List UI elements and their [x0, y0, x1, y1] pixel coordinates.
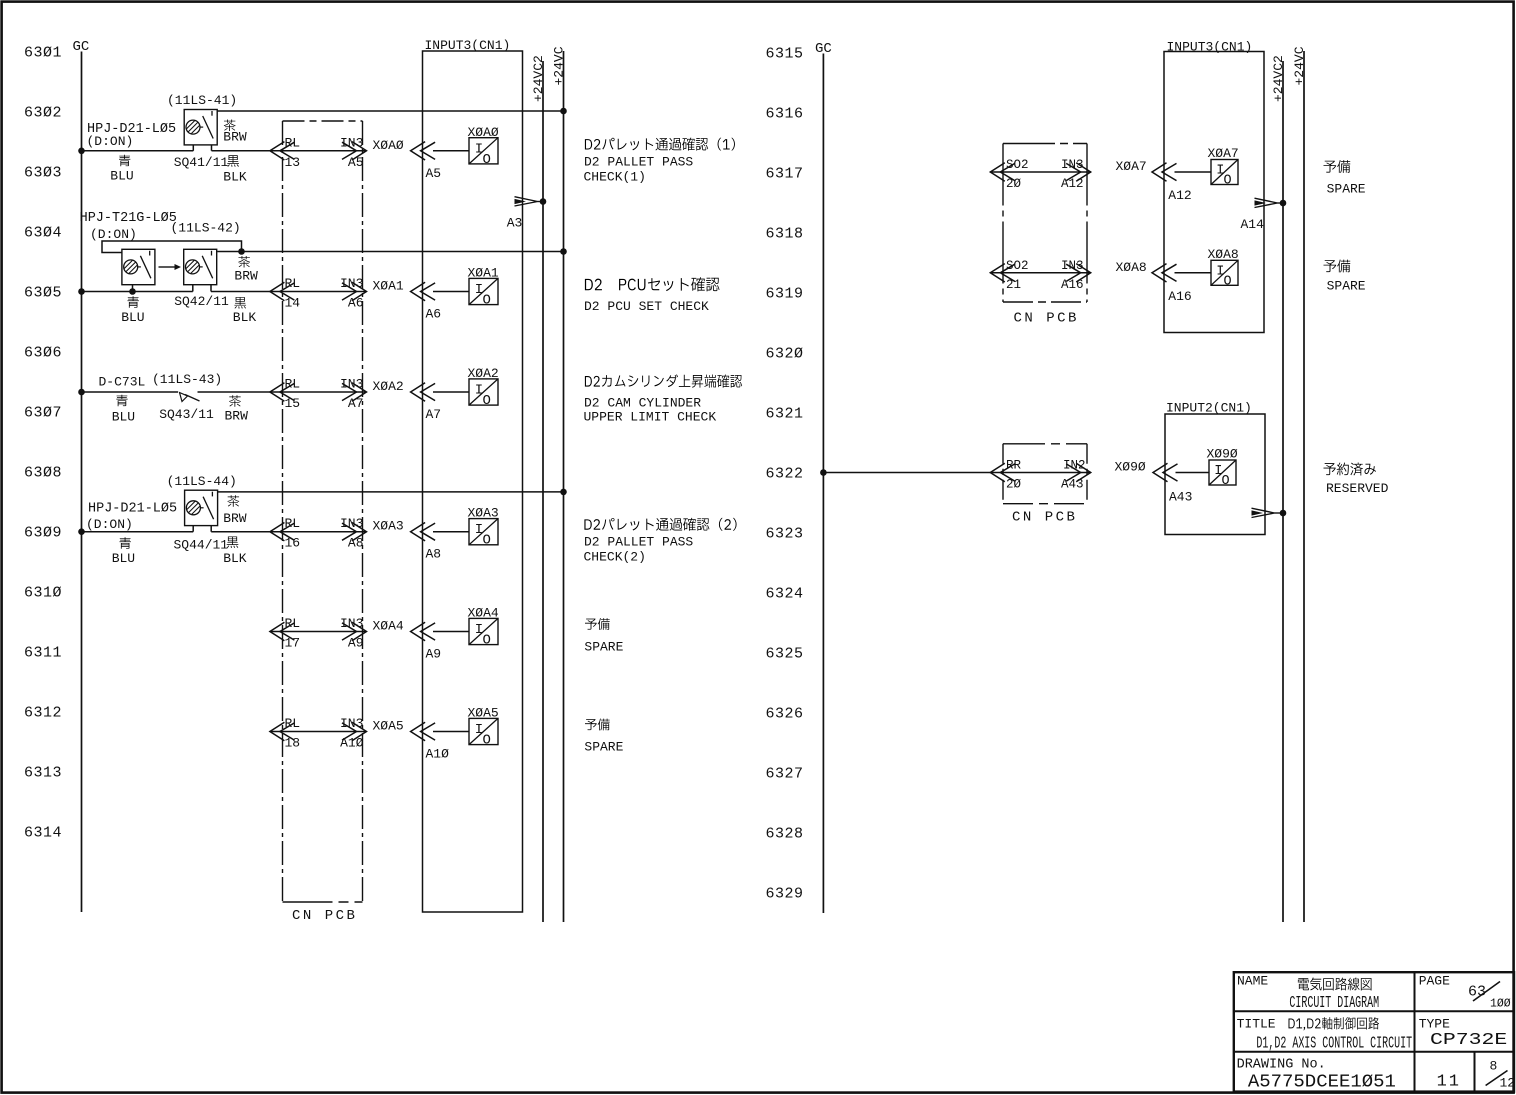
svg-text:BLK: BLK — [233, 310, 257, 325]
svg-text:13: 13 — [285, 155, 301, 170]
svg-text:2Ø: 2Ø — [1006, 478, 1022, 492]
svg-text:63Ø1: 63Ø1 — [24, 45, 62, 62]
connector CN PCB pin RL/17 to IN3/A9 — [270, 616, 367, 651]
reserved label — [1323, 462, 1388, 496]
input pin A6 of INPUT3 — [411, 282, 442, 321]
svg-text:6321: 6321 — [766, 406, 804, 423]
svg-text:6324: 6324 — [766, 586, 804, 603]
svg-text:XØA7: XØA7 — [1116, 159, 1147, 174]
description row1 Japanese: D2 pallet pass check (1) — [585, 138, 735, 151]
label kanji brown — [224, 119, 236, 131]
bus +24VC2 left — [531, 55, 546, 922]
svg-text:(11LS-42): (11LS-42) — [171, 221, 241, 236]
svg-text:(11LS-41): (11LS-41) — [167, 93, 237, 108]
title CIRCUIT DIAGRAM — [1289, 994, 1379, 1013]
junction GC row 6309 — [78, 528, 85, 535]
wire SQ44 terminal stubs — [192, 526, 194, 532]
svg-text:A8: A8 — [426, 547, 442, 562]
svg-text:IN3: IN3 — [340, 276, 363, 291]
svg-text:BRW: BRW — [223, 130, 247, 145]
svg-text:O: O — [483, 152, 491, 168]
opto I/O module X0A5 — [468, 706, 499, 749]
opto I/O module X090 — [1207, 447, 1238, 490]
svg-text:SO2: SO2 — [1006, 158, 1029, 172]
svg-text:DRAWING No.: DRAWING No. — [1237, 1058, 1326, 1073]
svg-text:RL: RL — [285, 377, 301, 392]
wire SQ42 brown lead to +24VC — [217, 251, 563, 253]
connector CN PCB left (dashed boundary) — [283, 121, 363, 924]
svg-text:A12: A12 — [1168, 188, 1191, 203]
svg-text:RL: RL — [285, 135, 301, 150]
label kanji black — [227, 155, 239, 167]
input pin A5 of INPUT3 — [411, 142, 442, 181]
svg-text:O: O — [483, 393, 491, 409]
svg-text:XØA8: XØA8 — [1116, 260, 1147, 275]
description row3 Japanese: D2 cam cylinder upper limit check — [585, 374, 742, 387]
connector box INPUT2(CN1) — [1165, 401, 1265, 535]
net label X0A1 — [373, 279, 404, 294]
label BRW — [225, 409, 249, 424]
wire GC to sensors blue lead — [82, 291, 193, 293]
wire GC to SQ41 blue lead — [82, 150, 194, 152]
svg-text:6319: 6319 — [766, 286, 804, 303]
label kanji blue — [116, 395, 127, 407]
junction GC row 6307 — [78, 389, 85, 396]
bus +24VC right — [1292, 46, 1307, 922]
svg-text:6313: 6313 — [24, 765, 62, 782]
wire SQ41 brown lead to +24VC — [217, 110, 563, 112]
svg-text:SPARE: SPARE — [1327, 182, 1366, 197]
label kanji blue — [119, 155, 130, 167]
svg-text:A43: A43 — [1061, 478, 1084, 492]
wire to I/O module — [433, 531, 469, 533]
net label X0A7 — [1116, 159, 1147, 174]
svg-text:TITLE: TITLE — [1237, 1016, 1276, 1031]
opto I/O module X0A0 — [468, 125, 499, 168]
svg-text:D2 PALLET PASS: D2 PALLET PASS — [584, 155, 693, 170]
svg-text:(D:ON): (D:ON) — [86, 517, 133, 532]
net label X0A3 — [373, 519, 404, 534]
svg-text:(D:ON): (D:ON) — [87, 134, 134, 149]
svg-text:6325: 6325 — [766, 646, 804, 663]
svg-text:NAME: NAME — [1237, 974, 1268, 989]
label BLU — [112, 551, 135, 566]
svg-text:D1,D2 AXIS CONTROL CIRCUIT: D1,D2 AXIS CONTROL CIRCUIT — [1256, 1035, 1412, 1054]
title block PAGE cell — [1419, 974, 1511, 1011]
svg-text:O: O — [1222, 474, 1230, 489]
svg-text:XØA1: XØA1 — [373, 279, 404, 294]
svg-text:SPARE: SPARE — [584, 639, 623, 654]
svg-text:BLK: BLK — [223, 551, 247, 566]
svg-text:HPJ-D21-LØ5: HPJ-D21-LØ5 — [88, 502, 177, 517]
svg-text:IN3: IN3 — [1061, 259, 1084, 273]
svg-text:631Ø: 631Ø — [24, 585, 62, 602]
label kanji blue — [120, 537, 131, 549]
junction +24VC row 6302 — [560, 108, 567, 115]
svg-text:A1Ø: A1Ø — [426, 747, 450, 762]
wire GC to CN PCB pin RR/20 — [823, 472, 990, 474]
svg-text:15: 15 — [285, 396, 301, 411]
svg-text:A12: A12 — [1061, 177, 1084, 191]
svg-text:BLU: BLU — [110, 169, 133, 184]
input pin A8 of INPUT3 — [411, 523, 442, 562]
svg-text:(11LS-44): (11LS-44) — [167, 474, 237, 489]
label kanji brown — [238, 256, 250, 268]
spare label right row1 — [1323, 160, 1365, 197]
wire to I/O module — [433, 391, 469, 393]
wire to I/O module X090 — [1176, 472, 1210, 474]
svg-text:CHECK(2): CHECK(2) — [584, 550, 646, 565]
svg-text:RESERVED: RESERVED — [1326, 481, 1389, 496]
description row1 English — [584, 155, 694, 185]
svg-text:D2 PALLET PASS: D2 PALLET PASS — [584, 535, 693, 550]
connector box INPUT3(CN1) right — [1164, 40, 1264, 333]
svg-text:18: 18 — [285, 736, 301, 751]
svg-text:6322: 6322 — [766, 466, 804, 483]
svg-text:XØA3: XØA3 — [373, 519, 404, 534]
bus GC left — [73, 39, 90, 912]
proximity switch pair SQ42/11 (11LS-42) HPJ-T21G-L05 — [80, 211, 241, 309]
svg-text:XØA4: XØA4 — [373, 619, 404, 634]
wire SQ42 black lead to CN PCB pin 14 — [211, 291, 270, 293]
svg-text:A5: A5 — [348, 155, 364, 170]
svg-text:A3: A3 — [507, 216, 523, 231]
junction loop to brown wire — [238, 248, 245, 255]
net label X0A8 — [1116, 260, 1147, 275]
svg-text:632Ø: 632Ø — [766, 346, 804, 363]
svg-text:O: O — [483, 633, 491, 649]
svg-text:RL: RL — [285, 716, 301, 731]
connector CN PCB pin RL/15 to IN3/A7 — [270, 377, 367, 412]
title block DRAWING No cell — [1237, 1058, 1396, 1093]
svg-text:CN PCB: CN PCB — [1012, 510, 1077, 526]
label BRW — [234, 269, 258, 284]
svg-text:63Ø6: 63Ø6 — [24, 345, 62, 362]
svg-text:SQ41/11: SQ41/11 — [174, 155, 229, 170]
svg-text:6315: 6315 — [766, 46, 804, 63]
connector CN PCB pin RR/20 to IN2/A43 — [990, 459, 1091, 492]
svg-text:(D:ON): (D:ON) — [90, 227, 137, 242]
svg-text:O: O — [483, 733, 491, 749]
title block — [1234, 972, 1514, 1091]
svg-text:SO2: SO2 — [1006, 259, 1029, 273]
wire to I/O module — [433, 731, 469, 733]
svg-text:8: 8 — [1490, 1059, 1498, 1074]
svg-text:6323: 6323 — [766, 526, 804, 543]
svg-text:63Ø4: 63Ø4 — [24, 225, 62, 242]
svg-text:63Ø7: 63Ø7 — [24, 405, 62, 422]
svg-text:11: 11 — [1437, 1073, 1461, 1092]
svg-text:O: O — [483, 533, 491, 549]
title block sheet 8/12 — [1486, 1059, 1516, 1091]
svg-text:RL: RL — [285, 276, 301, 291]
svg-text:A43: A43 — [1169, 490, 1192, 505]
connector CN PCB right upper (dashed boundary) — [1003, 144, 1087, 327]
title block TYPE cell — [1419, 1016, 1508, 1050]
svg-text:2Ø: 2Ø — [1006, 177, 1022, 191]
title block NAME cell — [1237, 974, 1268, 989]
svg-text:CN PCB: CN PCB — [292, 908, 357, 924]
svg-text:A16: A16 — [1061, 278, 1084, 292]
label kanji black — [234, 297, 246, 309]
svg-text:D2 PCU SET CHECK: D2 PCU SET CHECK — [584, 299, 709, 314]
svg-text:CN PCB: CN PCB — [1014, 311, 1079, 327]
junction blue lead sensor1 — [129, 288, 136, 295]
svg-text:63Ø5: 63Ø5 — [24, 285, 62, 302]
svg-text:XØ9Ø: XØ9Ø — [1207, 447, 1238, 462]
description row5 spare — [584, 618, 623, 654]
connector box INPUT3(CN1) left — [423, 38, 523, 912]
svg-text:21: 21 — [1006, 278, 1021, 292]
net label X090 — [1115, 460, 1146, 475]
svg-text:IN2: IN2 — [1063, 459, 1086, 473]
label BLK — [223, 551, 247, 566]
input pin A12 of INPUT3 right — [1152, 163, 1192, 203]
svg-text:XØA7: XØA7 — [1208, 146, 1239, 161]
label BLK — [233, 310, 257, 325]
connector CN PCB pin SO2/21 to IN3/A16 — [990, 259, 1091, 292]
wire sensor1 stub — [132, 285, 134, 292]
bus +24VC left — [552, 46, 567, 922]
svg-text:A1Ø: A1Ø — [340, 736, 364, 751]
wire to I/O module — [433, 291, 469, 293]
wire to I/O module — [1175, 272, 1212, 274]
svg-text:RL: RL — [285, 516, 301, 531]
description row4 Japanese: D2 pallet pass check (2) — [584, 518, 736, 531]
spare label right row2 — [1323, 259, 1365, 293]
svg-text:BLU: BLU — [121, 310, 144, 325]
svg-text:A8: A8 — [348, 536, 364, 551]
svg-text:63Ø8: 63Ø8 — [24, 465, 62, 482]
svg-text:XØA8: XØA8 — [1208, 247, 1239, 262]
net A14 anchor to +24VC2 right — [1241, 198, 1287, 232]
svg-text:A6: A6 — [348, 296, 364, 311]
label BRW — [223, 130, 247, 145]
description row4 English — [584, 535, 694, 565]
opto I/O module X0A3 — [468, 506, 499, 549]
svg-text:BRW: BRW — [234, 269, 258, 284]
connector CN PCB pin RL/18 to IN3/A10 — [270, 716, 367, 751]
svg-text:O: O — [483, 293, 491, 309]
svg-text:BLK: BLK — [223, 170, 247, 185]
svg-text:A7: A7 — [348, 396, 364, 411]
label BLU — [112, 409, 135, 424]
svg-text:SPARE: SPARE — [1327, 279, 1366, 294]
node grid line numbers left column — [24, 45, 62, 842]
svg-text:12: 12 — [1500, 1076, 1516, 1091]
input pin A7 of INPUT3 — [411, 383, 442, 422]
wire SQ41 terminal stubs — [192, 145, 194, 151]
label BLK — [223, 170, 247, 185]
label kanji black — [227, 536, 239, 548]
description row2 English — [584, 299, 709, 314]
svg-text:CIRCUIT DIAGRAM: CIRCUIT DIAGRAM — [1289, 994, 1379, 1013]
wire SQ44 black lead to CN PCB pin 16 — [211, 531, 270, 533]
title kanji CIRCUIT DIAGRAM japanese — [1298, 978, 1372, 991]
junction +24VC row 6308 — [560, 489, 567, 496]
svg-text:16: 16 — [285, 536, 301, 551]
label kanji blue — [128, 296, 139, 308]
svg-text:63Ø2: 63Ø2 — [24, 105, 62, 122]
svg-text:IN3: IN3 — [340, 377, 363, 392]
svg-text:TYPE: TYPE — [1419, 1016, 1450, 1031]
svg-text:IN3: IN3 — [340, 516, 363, 531]
svg-text:O: O — [1224, 174, 1232, 189]
connector CN PCB pin RL/14 to IN3/A6 — [270, 276, 367, 311]
opto I/O module X0A4 — [468, 606, 499, 649]
connector CN PCB pin RL/16 to IN3/A8 — [270, 516, 367, 551]
svg-text:A5775DCEE1Ø51: A5775DCEE1Ø51 — [1248, 1073, 1396, 1093]
svg-text:SQ43/11: SQ43/11 — [159, 407, 214, 422]
svg-text:17: 17 — [285, 636, 301, 651]
title block sheet number 11 — [1437, 1073, 1461, 1092]
svg-text:O: O — [1224, 274, 1232, 289]
description row6 spare — [584, 718, 623, 754]
connector CN PCB pin SO2/20 to IN3/A12 — [990, 158, 1091, 191]
title kanji D1,D2 axis control circuit japanese — [1288, 1017, 1379, 1030]
net label X0A0 — [373, 138, 404, 153]
input pin A43 of INPUT2 — [1153, 463, 1192, 504]
svg-text:63Ø9: 63Ø9 — [24, 525, 62, 542]
svg-text:RL: RL — [285, 616, 301, 631]
svg-text:UPPER LIMIT CHECK: UPPER LIMIT CHECK — [584, 410, 717, 425]
label BLU — [110, 169, 133, 184]
input pin A16 of INPUT3 right — [1152, 264, 1192, 304]
svg-text:A5: A5 — [426, 166, 442, 181]
wire to I/O module — [1175, 171, 1212, 173]
wire SQ43 brown lead to CN PCB pin 15 — [198, 391, 271, 393]
wire to I/O module — [433, 631, 469, 633]
svg-text:A16: A16 — [1168, 289, 1191, 304]
svg-text:XØA5: XØA5 — [373, 719, 404, 734]
svg-text:D2 CAM CYLINDER: D2 CAM CYLINDER — [584, 396, 701, 411]
wire to I/O module — [433, 150, 469, 152]
svg-text:(11LS-43): (11LS-43) — [152, 372, 222, 387]
svg-text:CP732E: CP732E — [1430, 1031, 1507, 1050]
svg-text:BRW: BRW — [223, 511, 247, 526]
net label X0A2 — [373, 379, 404, 394]
svg-text:6326: 6326 — [766, 706, 804, 723]
proximity switch SQ41/11 (11LS-41) HPJ-D21-L05 — [87, 93, 238, 170]
svg-text:IN3: IN3 — [340, 716, 363, 731]
svg-text:XØAØ: XØAØ — [373, 138, 404, 153]
svg-text:D-C73L: D-C73L — [99, 374, 146, 389]
svg-text:IN3: IN3 — [340, 616, 363, 631]
proximity switch SQ44/11 (11LS-44) HPJ-D21-L05 — [86, 474, 237, 553]
svg-text:6318: 6318 — [766, 226, 804, 243]
svg-text:6316: 6316 — [766, 106, 804, 123]
connector CN PCB pin RL/13 to IN3/A5 — [270, 135, 367, 170]
wire GC to SQ44 blue lead — [82, 531, 194, 533]
svg-text:A14: A14 — [1241, 217, 1265, 232]
svg-text:6311: 6311 — [24, 645, 62, 662]
svg-text:BLU: BLU — [112, 409, 135, 424]
net label X0A5 — [373, 719, 404, 734]
node grid line numbers right column — [766, 46, 804, 903]
svg-text:6328: 6328 — [766, 826, 804, 843]
label BRW — [223, 511, 247, 526]
opto I/O module X0A2 — [468, 366, 499, 409]
wire SQ44 brown lead to +24VC — [218, 491, 564, 493]
svg-text:BLU: BLU — [112, 551, 135, 566]
junction GC row 6302 — [78, 148, 85, 155]
bus GC right — [815, 41, 832, 913]
opto I/O module X0A1 — [468, 266, 499, 309]
description row3 English — [584, 396, 717, 425]
label BLU — [121, 310, 144, 325]
svg-text:A6: A6 — [426, 307, 442, 322]
svg-text:A9: A9 — [348, 636, 364, 651]
input pin A9 of INPUT3 — [411, 622, 442, 661]
svg-text:14: 14 — [285, 296, 301, 311]
svg-text:SQ44/11: SQ44/11 — [174, 538, 229, 553]
opto I/O module X0A7 — [1208, 146, 1239, 189]
wire SQ41 black lead to CN PCB pin 13 — [212, 150, 271, 152]
svg-text:6312: 6312 — [24, 705, 62, 722]
junction +24VC row 6304 — [560, 248, 567, 255]
net label X0A4 — [373, 619, 404, 634]
limit switch SQ43/11 (11LS-43) D-C73L — [99, 372, 223, 422]
svg-text:6327: 6327 — [766, 766, 804, 783]
svg-text:HPJ-T21G-LØ5: HPJ-T21G-LØ5 — [80, 211, 177, 226]
svg-text:PAGE: PAGE — [1419, 974, 1450, 989]
svg-text:6317: 6317 — [766, 166, 804, 183]
svg-text:6329: 6329 — [766, 886, 804, 903]
input pin A10 of INPUT3 — [411, 722, 450, 761]
net A3 anchor to +24VC2 — [507, 197, 547, 231]
svg-text:A7: A7 — [426, 407, 442, 422]
svg-text:IN3: IN3 — [340, 135, 363, 150]
svg-text:6314: 6314 — [24, 825, 62, 842]
bus +24VC2 right — [1271, 55, 1286, 922]
wire bypass loop SQ42 — [102, 241, 242, 253]
svg-text:SQ42/11: SQ42/11 — [174, 294, 229, 309]
svg-text:IN3: IN3 — [1061, 158, 1084, 172]
junction GC row 6322 — [820, 469, 827, 476]
opto I/O module X0A8 — [1208, 247, 1239, 290]
svg-text:XØA2: XØA2 — [373, 379, 404, 394]
wire SQ42 terminal stubs — [192, 285, 194, 292]
anchor arrow INPUT2 to +24VC2 — [1252, 508, 1287, 517]
svg-text:CHECK(1): CHECK(1) — [584, 170, 646, 185]
label kanji brown — [227, 495, 239, 507]
svg-text:XØ9Ø: XØ9Ø — [1115, 460, 1146, 475]
svg-text:BRW: BRW — [225, 409, 249, 424]
connector CN PCB right lower (dashed boundary) — [1003, 444, 1087, 526]
wire GC to SQ43 blue lead — [82, 391, 179, 393]
svg-text:63Ø3: 63Ø3 — [24, 165, 62, 182]
svg-text:RR: RR — [1006, 459, 1022, 473]
title block TITLE cell — [1237, 1016, 1276, 1031]
title D1,D2 AXIS CONTROL CIRCUIT — [1256, 1035, 1412, 1054]
svg-text:A9: A9 — [426, 647, 442, 662]
description row2 Japanese: D2 PCU set check — [585, 277, 720, 291]
label kanji brown — [229, 395, 241, 407]
svg-text:1ØØ: 1ØØ — [1490, 998, 1511, 1011]
junction GC row 6305 — [78, 288, 85, 295]
svg-text:SPARE: SPARE — [584, 739, 623, 754]
